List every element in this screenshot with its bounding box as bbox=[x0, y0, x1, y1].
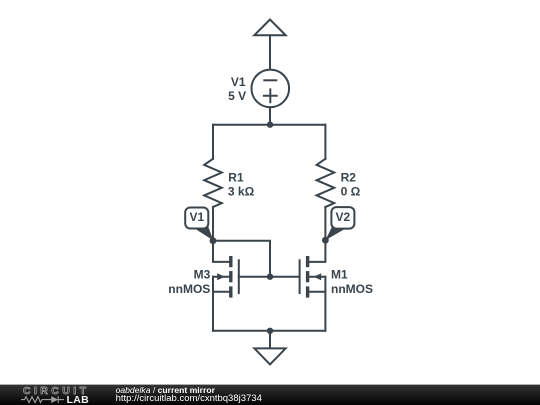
transistor M1 drain lead bbox=[309, 240, 325, 262]
logo resistor-diode line bbox=[21, 396, 64, 403]
node flag V1 pointer bbox=[194, 225, 214, 241]
node flag V1 box bbox=[185, 208, 208, 229]
transistor M3 bulk arrow bbox=[217, 273, 225, 280]
svg-text:M1: M1 bbox=[331, 268, 348, 282]
svg-text:V2: V2 bbox=[336, 210, 351, 224]
wire rail to ground bbox=[269, 331, 271, 349]
V1 plus sign bbox=[264, 89, 277, 102]
svg-text:R1: R1 bbox=[228, 170, 244, 184]
node V1 junction bbox=[210, 237, 217, 244]
transistor M3 gate line bbox=[238, 260, 240, 293]
wire M1 source to bottom rail bbox=[324, 292, 326, 331]
wire rail to R2 bbox=[324, 125, 326, 159]
svg-text:0 Ω: 0 Ω bbox=[341, 185, 361, 199]
wire rail to R1 bbox=[212, 125, 214, 159]
svg-text:3 kΩ: 3 kΩ bbox=[228, 185, 255, 199]
V1 minus sign bbox=[264, 79, 276, 81]
ground symbol bbox=[254, 348, 285, 364]
transistor M1 channel bars bbox=[306, 256, 309, 267]
wire gate bus M3 to M1 bbox=[239, 276, 300, 278]
transistor M3 channel bars bbox=[229, 256, 232, 267]
transistor M1 gate line bbox=[299, 260, 301, 293]
voltage source V1 circle bbox=[251, 70, 289, 108]
wire M3 source to bottom rail bbox=[212, 292, 214, 331]
junction bottom rail bbox=[267, 328, 273, 334]
transistor M1 bulk arrow bbox=[314, 273, 322, 280]
wire node V1 to gates bbox=[213, 241, 270, 277]
transistor M3 source lead bbox=[213, 277, 229, 292]
junction gate bus bbox=[267, 274, 273, 280]
svg-text:V1: V1 bbox=[231, 75, 246, 89]
svg-text:http://circuitlab.com/cxntbq38: http://circuitlab.com/cxntbq38j3734 bbox=[116, 393, 262, 404]
junction node top rail bbox=[267, 122, 273, 128]
svg-text:LAB: LAB bbox=[67, 394, 90, 405]
svg-text:V1: V1 bbox=[189, 210, 204, 224]
wire top rail bbox=[213, 124, 325, 126]
wire bottom rail bbox=[213, 330, 325, 332]
svg-text:M3: M3 bbox=[194, 268, 211, 282]
logo diode triangle bbox=[51, 396, 58, 403]
wire triangle to source bbox=[269, 35, 271, 70]
wire R2 to node V2 bbox=[324, 207, 326, 240]
transistor M3 drain lead bbox=[213, 241, 229, 262]
node flag V2 box bbox=[331, 207, 354, 229]
wire source to top rail bbox=[269, 107, 271, 125]
transistor M3 bulk lead bbox=[213, 276, 229, 278]
transistor M1 bulk lead bbox=[309, 276, 325, 278]
transistor M1 source lead bbox=[309, 277, 325, 292]
svg-text:nnMOS: nnMOS bbox=[168, 282, 210, 296]
svg-text:nnMOS: nnMOS bbox=[331, 282, 373, 296]
node V2 junction bbox=[322, 237, 329, 244]
resistor R2 bbox=[317, 159, 335, 207]
svg-text:R2: R2 bbox=[341, 170, 357, 184]
svg-text:5 V: 5 V bbox=[228, 89, 246, 103]
wire R1 to node V1 bbox=[212, 207, 214, 241]
power symbol VCC triangle bbox=[254, 20, 285, 36]
resistor R1 bbox=[204, 159, 222, 207]
node flag V2 pointer bbox=[326, 225, 347, 240]
